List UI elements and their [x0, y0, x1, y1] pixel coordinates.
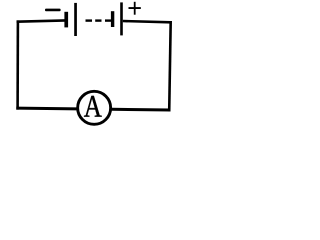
wire top-left horizontal segment — [17, 19, 67, 23]
dashed wire segment 1 between cells — [86, 19, 93, 21]
battery cell 2 long plate (positive) — [120, 2, 123, 35]
battery cell 1 long plate — [74, 3, 77, 36]
wire top-right horizontal segment — [123, 20, 171, 24]
wire left vertical segment — [16, 20, 19, 109]
plus polarity label vertical arm — [134, 2, 136, 15]
ammeter U1 circle — [78, 91, 111, 124]
wire bottom-right horizontal segment — [112, 108, 171, 112]
plus polarity label horizontal arm — [129, 7, 141, 9]
ammeter label A — [84, 96, 102, 117]
battery cell 2 short plate (negative) — [111, 11, 114, 27]
minus polarity label — [45, 9, 61, 12]
wire stub into cell 2 — [105, 19, 111, 21]
battery cell 1 short plate (negative) — [64, 12, 68, 28]
wire right vertical segment — [168, 21, 172, 112]
wire bottom-left horizontal segment — [16, 107, 77, 111]
dashed wire segment 2 between cells — [95, 19, 101, 21]
